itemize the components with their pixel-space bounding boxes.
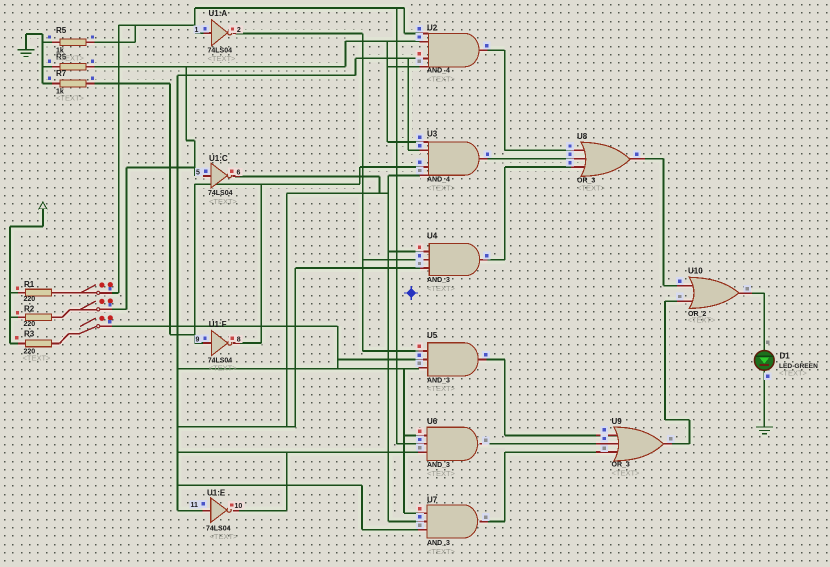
svg-text:AND_3: AND_3	[427, 277, 450, 284]
svg-text:AND_4: AND_4	[427, 67, 450, 74]
svg-text:9: 9	[196, 337, 200, 344]
svg-text:5: 5	[196, 170, 200, 177]
svg-text:<TEXT>: <TEXT>	[208, 54, 237, 63]
svg-text:<TEXT>: <TEXT>	[56, 54, 85, 63]
svg-text:<TEXT>: <TEXT>	[23, 354, 52, 363]
svg-text:<TEXT>: <TEXT>	[427, 547, 456, 556]
svg-text:<TEXT>: <TEXT>	[427, 184, 456, 193]
svg-text:U8: U8	[577, 132, 588, 141]
svg-text:OR_3: OR_3	[612, 461, 630, 468]
svg-text:U2: U2	[427, 24, 438, 33]
svg-text:<TEXT>: <TEXT>	[577, 184, 606, 193]
svg-text:R5: R5	[56, 26, 67, 35]
svg-text:<TEXT>: <TEXT>	[427, 469, 456, 478]
svg-text:<TEXT>: <TEXT>	[209, 363, 238, 372]
svg-text:220: 220	[24, 321, 36, 328]
svg-text:AND_4: AND_4	[427, 176, 450, 183]
svg-text:10: 10	[235, 503, 243, 510]
svg-text:U7: U7	[427, 496, 438, 505]
svg-text:U1:F: U1:F	[209, 320, 227, 329]
svg-text:220: 220	[24, 296, 36, 303]
svg-text:U9: U9	[612, 417, 623, 426]
svg-text:<TEXT>: <TEXT>	[779, 369, 808, 378]
svg-text:U1:A: U1:A	[209, 9, 228, 18]
svg-text:U1:E: U1:E	[207, 488, 226, 497]
svg-text:R2: R2	[24, 305, 35, 314]
svg-text:11: 11	[191, 502, 199, 509]
svg-text:U1:C: U1:C	[209, 154, 228, 163]
svg-text:<TEXT>: <TEXT>	[612, 469, 641, 478]
svg-text:U3: U3	[427, 130, 438, 139]
svg-text:AND_3: AND_3	[427, 462, 450, 469]
svg-text:<TEXT>: <TEXT>	[210, 532, 239, 541]
svg-text:U5: U5	[427, 331, 438, 340]
svg-text:2: 2	[237, 27, 241, 34]
svg-text:AND_3: AND_3	[427, 540, 450, 547]
svg-text:8: 8	[237, 337, 241, 344]
svg-text:<TEXT>: <TEXT>	[427, 284, 456, 293]
svg-text:R1: R1	[24, 280, 35, 289]
svg-text:<TEXT>: <TEXT>	[427, 384, 456, 393]
svg-text:U4: U4	[427, 232, 438, 241]
svg-text:<TEXT>: <TEXT>	[56, 94, 85, 103]
svg-text:R7: R7	[56, 69, 67, 78]
svg-text:U10: U10	[688, 266, 703, 275]
svg-text:<TEXT>: <TEXT>	[427, 75, 456, 84]
svg-text:U6: U6	[427, 417, 438, 426]
svg-text:<TEXT>: <TEXT>	[209, 197, 238, 206]
svg-text:1: 1	[195, 27, 199, 34]
svg-text:D1: D1	[780, 351, 791, 360]
svg-text:R3: R3	[24, 330, 35, 339]
svg-text:6: 6	[237, 170, 241, 177]
svg-text:<TEXT>: <TEXT>	[688, 316, 717, 325]
